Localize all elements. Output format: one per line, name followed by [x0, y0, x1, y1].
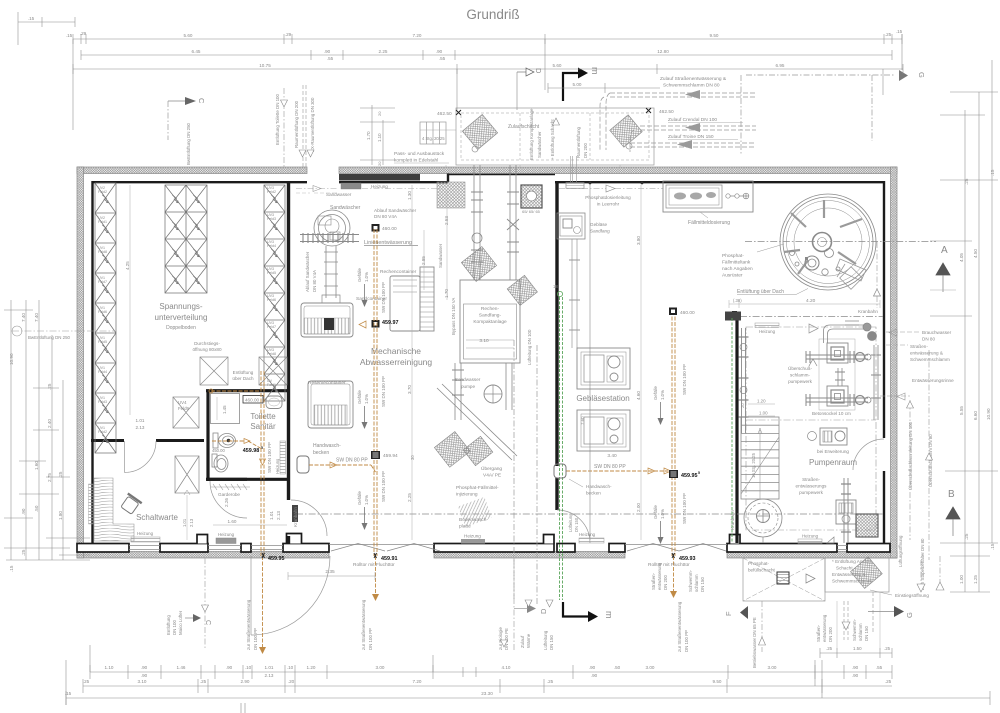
- wall shaft hatch blocks at top: [437, 182, 465, 208]
- svg-text:Pumpenraum: Pumpenraum: [809, 458, 857, 467]
- dim vertical geblaese: [640, 185, 642, 540]
- svg-text:.25: .25: [885, 32, 892, 37]
- rolltor chevrons: [331, 544, 726, 552]
- svg-text:Schwemmschlamm: Schwemmschlamm: [832, 579, 872, 584]
- svg-text:2.75: 2.75: [47, 473, 52, 482]
- exterior door arc bottom (schaltwarte exit): [251, 556, 330, 635]
- svg-text:Ablauf Sandwäscher: Ablauf Sandwäscher: [374, 208, 417, 213]
- phosphat befuellschacht pit: [743, 558, 889, 601]
- svg-text:Feld8: Feld8: [98, 250, 107, 254]
- svg-text:Fällmitteltank: Fällmitteltank: [722, 260, 751, 266]
- window sill lines bottom wall: [129, 545, 847, 550]
- sandcontainer: [301, 303, 353, 337]
- svg-text:Kompaktanlage: Kompaktanlage: [473, 319, 507, 325]
- svg-text:schlamm: schlamm: [858, 623, 863, 641]
- svg-text:2.40: 2.40: [47, 419, 52, 428]
- svg-text:DN 200: DN 200: [828, 627, 833, 642]
- svg-text:becken: becken: [586, 491, 601, 496]
- svg-text:Reservecontainer: Reservecontainer: [308, 380, 346, 386]
- svg-text:Lüftungsöffnung: Lüftungsöffnung: [898, 535, 903, 567]
- reservecontainer: [308, 381, 353, 428]
- svg-text:Straßen-: Straßen-: [910, 344, 928, 349]
- small stairs top left of pit: [420, 122, 446, 144]
- svg-text:Gefälle: Gefälle: [357, 491, 362, 505]
- spokes: [784, 200, 862, 274]
- svg-text:Sandfang-: Sandfang-: [479, 313, 502, 319]
- vertical pipes above kompaktanlage: [471, 165, 519, 280]
- svg-text:(.30): (.30): [733, 298, 742, 303]
- SW sewer line 2 (hall) orange: [309, 229, 377, 597]
- top left page ticks: [18, 12, 75, 45]
- svg-text:DN 150: DN 150: [864, 626, 869, 641]
- svg-text:.55: .55: [327, 56, 334, 61]
- lintel bar top wall: [339, 174, 420, 181]
- svg-text:Ablauf Sandwäscher: Ablauf Sandwäscher: [305, 251, 310, 292]
- wall W4 geblaese left: [555, 181, 558, 510]
- svg-text:Phosphat-: Phosphat-: [748, 561, 769, 566]
- svg-text:1.0%: 1.0%: [364, 495, 369, 505]
- 460.00 box on line3: [669, 308, 677, 316]
- left wall riser: [739, 328, 749, 433]
- svg-text:65/ 65/ 65: 65/ 65/ 65: [522, 209, 541, 214]
- garderobe: [211, 486, 250, 488]
- svg-text:.15: .15: [65, 691, 72, 696]
- svg-text:Zulaufschacht: Zulaufschacht: [508, 124, 540, 130]
- svg-text:Überschuß-: Überschuß-: [788, 365, 812, 371]
- svg-text:Lüfteitung: Lüfteitung: [543, 630, 548, 650]
- svg-text:G: G: [917, 72, 926, 78]
- SW sewer line 1 (toilet) orange: [211, 371, 264, 650]
- dims 1.50 25: [820, 652, 892, 654]
- orange line labels below: [246, 599, 689, 652]
- svg-text:m: m: [604, 611, 614, 619]
- kranbahn rails: [296, 242, 936, 515]
- svg-text:Garderobe: Garderobe: [218, 492, 240, 497]
- svg-text:3.70: 3.70: [407, 385, 412, 394]
- svg-text:SW DN 100 PP: SW DN 100 PP: [682, 493, 687, 524]
- svg-text:1.60: 1.60: [228, 519, 237, 524]
- svg-text:DN 100 PP: DN 100 PP: [253, 628, 258, 650]
- svg-text:Schwemmschlamm: Schwemmschlamm: [910, 357, 950, 362]
- svg-text:.90: .90: [852, 665, 859, 670]
- svg-text:20: 20: [377, 161, 382, 166]
- svg-text:pumpe: pumpe: [461, 384, 475, 389]
- svg-text:459.98: 459.98: [243, 448, 260, 454]
- vertical texts below building right: [651, 535, 925, 668]
- svg-text:Schwemm-: Schwemm-: [852, 619, 857, 641]
- svg-text:6.95: 6.95: [776, 63, 785, 68]
- svg-text:.10: .10: [245, 665, 252, 670]
- svg-text:Heizung: Heizung: [464, 534, 481, 539]
- svg-text:schlamm: schlamm: [694, 574, 699, 592]
- flanged horizontal pipe left of sandwaescher: [300, 233, 359, 243]
- pit diamonds: [462, 114, 497, 149]
- radiators: [131, 537, 160, 542]
- inner leaf walls (black): [92, 174, 885, 544]
- svg-text:Feld8: Feld8: [267, 352, 276, 356]
- svg-text:Betonsockel 10 cm: Betonsockel 10 cm: [812, 411, 851, 416]
- svg-text:.15: .15: [990, 543, 995, 550]
- svg-text:2.90: 2.90: [241, 679, 250, 684]
- chair: [119, 493, 142, 515]
- vertical vent labels over pit: [529, 108, 588, 160]
- svg-text:459.91: 459.91: [381, 556, 398, 562]
- svg-text:.90: .90: [589, 665, 596, 670]
- svg-text:1.01: 1.01: [182, 518, 187, 527]
- svg-text:Feld3: Feld3: [98, 400, 107, 404]
- svg-text:.90: .90: [226, 665, 233, 670]
- svg-text:DN 150: DN 150: [574, 517, 579, 532]
- svg-text:1.10: 1.10: [377, 133, 382, 142]
- svg-text:.15: .15: [28, 16, 35, 21]
- svg-text:1.01: 1.01: [265, 665, 274, 670]
- svg-text:Straßen-: Straßen-: [802, 477, 820, 482]
- svg-text:460.00: 460.00: [245, 398, 259, 403]
- exterior wall stipple band top: [77, 167, 897, 558]
- svg-text:.90: .90: [591, 673, 598, 678]
- svg-text:Brauchwasser: Brauchwasser: [922, 330, 952, 335]
- svg-text:Lüfteitung DN 100: Lüfteitung DN 100: [527, 329, 532, 365]
- svg-text:DN 150: DN 150: [549, 635, 554, 650]
- svg-text:C: C: [204, 620, 211, 625]
- 4.25 dim inside left room: [129, 185, 131, 415]
- svg-text:.25: .25: [964, 178, 969, 185]
- svg-text:Rechencontainer: Rechencontainer: [380, 269, 417, 275]
- svg-text:Gefälle: Gefälle: [357, 390, 362, 404]
- svg-text:459.95: 459.95: [268, 556, 285, 562]
- svg-text:460.00: 460.00: [382, 226, 397, 232]
- svg-text:2.00: 2.00: [636, 503, 641, 512]
- svg-text:Feld7: Feld7: [98, 280, 107, 284]
- svg-text:Sandwasser: Sandwasser: [455, 377, 481, 382]
- svg-text:Entlüftung: Entlüftung: [233, 370, 254, 375]
- svg-text:m: m: [590, 67, 600, 75]
- svg-text:Straßen-: Straßen-: [816, 624, 821, 642]
- svg-text:DN 100 PP: DN 100 PP: [368, 628, 373, 650]
- svg-text:nach Angaben: nach Angaben: [722, 266, 753, 272]
- bold m arrow bottom: [563, 602, 589, 617]
- svg-text:1.50: 1.50: [853, 646, 862, 651]
- svg-text:Linienentwässerung: Linienentwässerung: [364, 240, 412, 246]
- svg-text:460.00: 460.00: [680, 310, 695, 316]
- svg-text:4.05: 4.05: [959, 253, 964, 262]
- sandwaescher circular unit: [314, 210, 350, 303]
- svg-text:becken: becken: [313, 450, 329, 456]
- svg-text:.15: .15: [990, 169, 995, 176]
- svg-text:3.80: 3.80: [636, 236, 641, 245]
- svg-text:Fällmitteldosierung: Fällmitteldosierung: [688, 220, 730, 226]
- wash oval: [266, 396, 282, 409]
- svg-text:1.00: 1.00: [959, 575, 964, 584]
- small circles inside tank: [790, 249, 841, 276]
- svg-text:3.00: 3.00: [646, 665, 655, 670]
- vortex sump: [744, 499, 782, 543]
- EX duct above wall: [566, 156, 584, 188]
- svg-text:3.00: 3.00: [768, 665, 777, 670]
- hatch square 1: [200, 357, 287, 385]
- fitting on line2: [371, 451, 380, 459]
- svg-text:2.26: 2.26: [224, 498, 229, 507]
- svg-text:Schwemmschlamm DN 80: Schwemmschlamm DN 80: [663, 83, 720, 89]
- svg-text:Handwasch-: Handwasch-: [313, 443, 341, 449]
- svg-text:2.25: 2.25: [379, 49, 388, 54]
- crosshatch diamonds upper: [461, 247, 496, 282]
- svg-text:V4A/ PE: V4A/ PE: [483, 473, 501, 479]
- svg-text:.90: .90: [436, 49, 443, 54]
- svg-text:Betriebswasser DN 65 PE: Betriebswasser DN 65 PE: [752, 617, 757, 668]
- m bold marker top: [563, 73, 579, 101]
- svg-text:F: F: [724, 611, 733, 616]
- svg-text:EX-Raumentlüftung DN 300: EX-Raumentlüftung DN 300: [310, 97, 315, 152]
- svg-text:1.0%: 1.0%: [660, 390, 665, 400]
- svg-text:1.20: 1.20: [307, 665, 316, 670]
- pump + pipes lower center: [437, 363, 517, 460]
- svg-text:4.20: 4.20: [806, 298, 816, 304]
- svg-text:459.95: 459.95: [681, 473, 698, 479]
- svg-text:23.30: 23.30: [481, 691, 493, 696]
- right dimension chains: [930, 60, 998, 592]
- vent line down from tank: [876, 242, 878, 308]
- svg-text:G: G: [905, 612, 914, 618]
- svg-text:2.13: 2.13: [189, 518, 194, 527]
- pump assembly bottom vertical: [836, 478, 856, 543]
- svg-text:Einstiegsöffnung: Einstiegsöffnung: [895, 593, 929, 598]
- left dimension chains: [4, 300, 90, 560]
- svg-text:.25: .25: [885, 679, 892, 684]
- svg-text:.15: .15: [896, 29, 903, 34]
- svg-text:.29: .29: [80, 31, 87, 36]
- svg-text:20: 20: [377, 111, 382, 116]
- svg-text:Sandwasser: Sandwasser: [438, 243, 443, 268]
- top wall inner leaf left part: [92, 181, 308, 183]
- svg-text:5: 5: [698, 471, 700, 475]
- svg-text:B: B: [948, 489, 955, 500]
- svg-text:SW DN 100 PP: SW DN 100 PP: [381, 376, 386, 407]
- svg-text:4.50: 4.50: [973, 249, 978, 258]
- svg-text:Rechen-: Rechen-: [481, 306, 500, 312]
- svg-text:18: 18: [553, 284, 558, 289]
- svg-text:Entlüftung Kompaktanlage: Entlüftung Kompaktanlage: [529, 108, 534, 160]
- svg-text:2.13: 2.13: [265, 673, 274, 678]
- svg-text:öffnung 80x80: öffnung 80x80: [192, 347, 221, 352]
- svg-text:zur Straßenentwässerung: zur Straßenentwässerung: [361, 599, 366, 650]
- svg-text:Mechanische: Mechanische: [371, 346, 421, 356]
- svg-text:4.10: 4.10: [502, 665, 511, 670]
- drain channel dash-dot loop: [746, 327, 876, 530]
- svg-text:.25: .25: [964, 533, 969, 540]
- crosshatch square bottom right: [856, 514, 878, 537]
- right wall inner leaf: [883, 181, 885, 543]
- svg-text:10 Stg. 20/25: 10 Stg. 20/25: [751, 452, 756, 478]
- left vent labels above building: [186, 94, 315, 165]
- betonsockel dashed: [819, 339, 855, 410]
- svg-text:Gefälle: Gefälle: [653, 505, 658, 519]
- zulauf pipes from right: [600, 93, 756, 152]
- stairs: [741, 417, 779, 499]
- svg-text:.55: .55: [876, 665, 883, 670]
- svg-text:2.85: 2.85: [421, 256, 426, 265]
- svg-text:Kranbahn: Kranbahn: [858, 309, 878, 314]
- svg-text:injizierung: injizierung: [456, 492, 478, 498]
- svg-text:komplett in Edelstahl: komplett in Edelstahl: [394, 158, 438, 164]
- svg-text:zur Biologie: zur Biologie: [498, 627, 503, 650]
- UV cabinet column 2 double: [165, 185, 207, 293]
- heizung geblaese: [579, 538, 604, 543]
- door arc W1: [291, 500, 327, 536]
- svg-text:1.0%: 1.0%: [364, 272, 369, 282]
- bottom wall piers: [77, 534, 890, 553]
- svg-text:1.46: 1.46: [177, 665, 186, 670]
- svg-text:D: D: [539, 608, 548, 614]
- svg-text:Heizung: Heizung: [218, 532, 235, 537]
- svg-text:6.45: 6.45: [192, 49, 201, 54]
- svg-text:1.01: 1.01: [269, 511, 274, 520]
- desk wood: [94, 478, 134, 541]
- svg-text:* Entlüftung Ansicht: * Entlüftung Ansicht: [832, 559, 873, 564]
- svg-text:7.60: 7.60: [580, 416, 585, 425]
- D marker top: [516, 72, 518, 110]
- svg-text:10.90: 10.90: [986, 408, 991, 420]
- svg-text:.90: .90: [141, 665, 148, 670]
- svg-text:Feld1: Feld1: [98, 220, 107, 224]
- svg-text:BwEntlüftung DN 250: BwEntlüftung DN 250: [28, 335, 71, 340]
- heizung radiator toilet right wall: [280, 441, 286, 474]
- handwaschbecken geblaese: [554, 464, 566, 478]
- heizung bottom: [798, 539, 822, 544]
- svg-text:2.35: 2.35: [325, 569, 335, 575]
- svg-text:Feld4: Feld4: [98, 370, 107, 374]
- svg-text:1.70: 1.70: [444, 289, 449, 298]
- faellmitteldosierung: [663, 181, 753, 212]
- shower square: [211, 394, 240, 424]
- page fold mark bottom: [241, 703, 245, 713]
- svg-text:.25: .25: [47, 383, 52, 390]
- right wall pipe: [871, 345, 881, 420]
- svg-text:Wärme: Wärme: [526, 633, 531, 648]
- svg-text:Entlüftung: Entlüftung: [166, 615, 171, 635]
- svg-text:DN 200: DN 200: [663, 575, 668, 590]
- svg-text:Kranbahn: Kranbahn: [730, 510, 735, 530]
- svg-text:zur Straßenentwässerung: zur Straßenentwässerung: [246, 599, 251, 650]
- left below labels: [166, 610, 554, 650]
- svg-text:.25: .25: [200, 679, 207, 684]
- svg-text:Feld2: Feld2: [98, 430, 107, 434]
- svg-text:Straßen-: Straßen-: [651, 572, 656, 590]
- svg-text:1.30: 1.30: [407, 191, 412, 200]
- svg-text:SW DN 100 PP: SW DN 100 PP: [267, 442, 272, 473]
- svg-text:DN 80: DN 80: [922, 337, 935, 342]
- svg-text:Feld2: Feld2: [98, 190, 107, 194]
- svg-text:30: 30: [410, 455, 415, 460]
- geblaese sandfang box: [557, 213, 585, 239]
- svg-text:Maico Lüfter: Maico Lüfter: [178, 610, 183, 635]
- risers to top: [824, 321, 877, 386]
- C marker top: [168, 100, 190, 102]
- svg-text:Sandwäscher: Sandwäscher: [537, 131, 542, 158]
- svg-text:2.13: 2.13: [276, 511, 281, 520]
- UV4 Feld9 box: [173, 397, 199, 493]
- svg-text:Entlüftung Toilette DN 100: Entlüftung Toilette DN 100: [275, 94, 280, 145]
- svg-text:Schacht: Schacht: [836, 566, 853, 571]
- svg-text:Grundriß: Grundriß: [466, 7, 519, 22]
- wc 1: [212, 433, 236, 472]
- svg-text:DN 80 V4A: DN 80 V4A: [312, 270, 317, 292]
- svg-text:pumpewerk: pumpewerk: [788, 379, 812, 384]
- svg-text:Feld9: Feld9: [178, 406, 190, 411]
- svg-text:7.20: 7.20: [413, 679, 422, 684]
- svg-text:Heizung: Heizung: [275, 458, 280, 474]
- W4 door arc: [557, 510, 590, 543]
- svg-text:9.50: 9.50: [710, 33, 719, 38]
- svg-text:bei Erweiterung: bei Erweiterung: [817, 449, 849, 454]
- svg-text:Feld2: Feld2: [267, 190, 276, 194]
- 459.95 box on line3: [669, 470, 678, 478]
- svg-text:Feld7: Feld7: [267, 325, 276, 329]
- svg-text:5.60: 5.60: [553, 63, 562, 68]
- svg-text:1.45: 1.45: [222, 405, 227, 414]
- svg-text:pumpewerk: pumpewerk: [799, 490, 823, 495]
- svg-text:5.00: 5.00: [573, 82, 582, 87]
- svg-text:7.20: 7.20: [413, 33, 422, 38]
- green ventilation lines: [560, 297, 733, 600]
- svg-text:Heizung: Heizung: [137, 531, 154, 536]
- svg-text:.50: .50: [34, 505, 39, 512]
- svg-text:10.75: 10.75: [259, 63, 271, 68]
- svg-text:.25: .25: [884, 646, 891, 651]
- svg-text:A: A: [941, 245, 948, 256]
- connector lines pit to building: [420, 130, 620, 168]
- svg-text:Feld4: Feld4: [267, 244, 276, 248]
- svg-text:DN 150: DN 150: [700, 577, 705, 592]
- dims 1.20 1.00: [748, 404, 775, 416]
- svg-text:.90: .90: [21, 508, 26, 515]
- left wall inner leaf: [91, 181, 93, 543]
- door arc W3: [125, 441, 157, 473]
- blower unit 2: [577, 410, 630, 451]
- svg-text:Gefälle: Gefälle: [653, 386, 658, 400]
- svg-text:Heizung: Heizung: [579, 532, 596, 537]
- svg-text:Handwasch-: Handwasch-: [586, 484, 612, 489]
- UV cabinet column 3: [264, 185, 285, 401]
- svg-text:Heizung: Heizung: [759, 329, 776, 334]
- svg-text:9.50: 9.50: [713, 679, 722, 684]
- svg-text:Sandfang: Sandfang: [590, 229, 610, 234]
- svg-text:1.70: 1.70: [366, 131, 371, 140]
- dim 4.20: [729, 303, 880, 305]
- crosshatch diamonds lower: [434, 432, 470, 468]
- BwEntlueftung circle left: [12, 326, 22, 336]
- wall W1 between left rooms and hall: [287, 181, 290, 544]
- svg-text:5.55: 5.55: [959, 406, 964, 415]
- svg-text:7.40: 7.40: [34, 313, 39, 322]
- svg-text:.90: .90: [141, 673, 148, 678]
- svg-text:Feld6: Feld6: [98, 310, 107, 314]
- svg-text:1.10: 1.10: [105, 665, 114, 670]
- svg-text:.25: .25: [83, 679, 90, 684]
- svg-text:Zulauf Crendal DN 100: Zulauf Crendal DN 100: [668, 117, 717, 123]
- heizung top: [755, 323, 779, 328]
- phosphat tank circle: [780, 194, 876, 290]
- svg-text:DN 200: DN 200: [583, 143, 588, 158]
- svg-text:.15: .15: [9, 565, 14, 572]
- svg-text:Kranbahn: Kranbahn: [293, 507, 298, 527]
- svg-text:DN 80 V4A: DN 80 V4A: [374, 214, 398, 219]
- svg-text:entwässerung &: entwässerung &: [910, 351, 943, 356]
- svg-text:Rolltor mit Fluchttür: Rolltor mit Fluchttür: [353, 562, 395, 568]
- svg-text:DN 100: DN 100: [172, 620, 177, 635]
- svg-text:Doppelboden: Doppelboden: [166, 325, 196, 331]
- svg-text:.90: .90: [324, 49, 331, 54]
